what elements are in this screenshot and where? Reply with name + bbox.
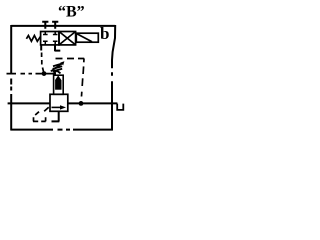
node B top line (11, 25, 115, 27)
drain tank ticks (34, 117, 46, 121)
wire left vertical solid (10, 25, 12, 74)
wire left vertical dashes (10, 79, 12, 91)
relief flow arrowhead (60, 105, 66, 109)
relief inlet wire (8, 102, 50, 104)
relief valve spring (53, 64, 63, 74)
junction dot pilot (42, 71, 47, 76)
valve spring left (26, 36, 40, 42)
valve position box 2 (cross X) (59, 32, 76, 45)
pilot line dashed drop left (42, 53, 44, 72)
wire bottom edge (11, 129, 113, 131)
svg-text:“B”: “B” (58, 4, 85, 21)
solenoid b (76, 33, 98, 42)
port cap T left (42, 22, 48, 29)
junction dot outlet (79, 101, 84, 106)
port cap T right (52, 22, 58, 29)
relief drain wire (52, 112, 60, 122)
relief poppet arrow (55, 75, 62, 80)
adjustment arrow (51, 63, 63, 71)
blocked port symbols inside box 1 (43, 32, 58, 44)
adjustment arrowhead (60, 61, 64, 65)
relief pilot narrow box (54, 75, 64, 94)
relief outlet wire (68, 102, 118, 104)
wire valve bottom stub right (55, 45, 61, 51)
valve position box 1 (blocked ports) (41, 32, 59, 45)
svg-text:b: b (100, 24, 109, 43)
wire left vertical lower (10, 94, 12, 130)
pilot line dashed horizontal (56, 58, 85, 60)
pilot line dashed vertical right (82, 59, 85, 97)
relief flow arrow (52, 106, 62, 108)
wire right vertical (112, 25, 115, 130)
tank symbol right (117, 104, 123, 110)
drain dashes left (33, 120, 46, 122)
relief main box (50, 94, 68, 111)
pilot line dashed horizontal y73.6 (7, 73, 57, 75)
wire valve bottom stub left (40, 45, 42, 51)
drain dashed diagonal (35, 107, 49, 115)
